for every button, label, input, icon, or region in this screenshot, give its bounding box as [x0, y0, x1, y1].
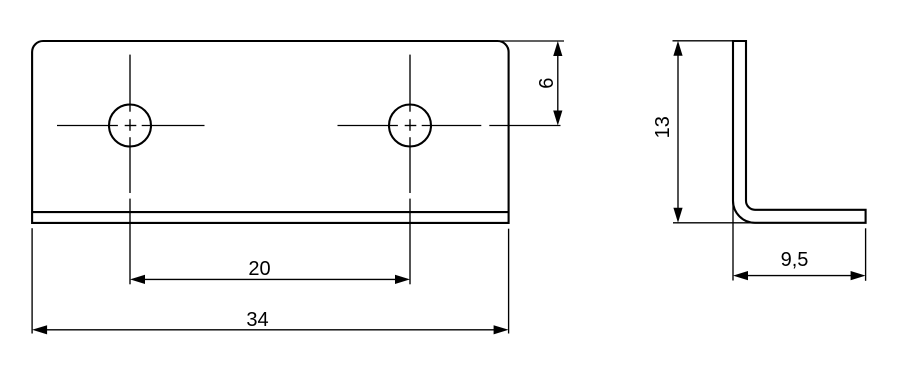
svg-text:9,5: 9,5	[781, 249, 809, 271]
svg-text:20: 20	[248, 258, 270, 280]
svg-text:6: 6	[536, 78, 558, 89]
svg-text:13: 13	[652, 116, 674, 138]
svg-text:34: 34	[246, 309, 268, 331]
